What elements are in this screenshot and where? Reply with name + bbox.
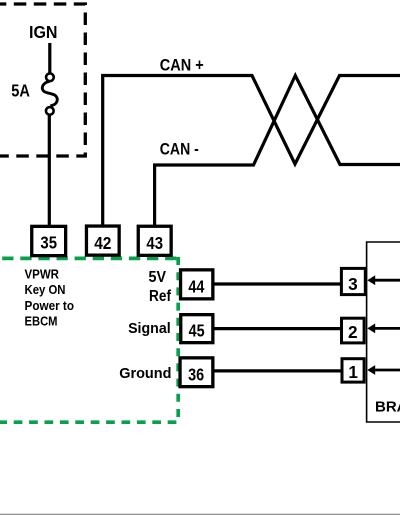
svg-text:2: 2 (348, 322, 358, 342)
EBCM connector green dashed boundary: right edge (176, 257, 180, 422)
brake pedal position sensor box (367, 242, 400, 422)
svg-text:44: 44 (188, 276, 204, 296)
fuse box dashed boundary (0, 4, 85, 156)
svg-text:BRA: BRA (375, 398, 400, 415)
svg-text:5V: 5V (149, 269, 167, 286)
arrow to pin 3 (375, 279, 400, 282)
pin 44 box (181, 270, 213, 299)
svg-text:CAN -: CAN - (160, 140, 199, 159)
svg-text:42: 42 (94, 233, 111, 253)
pin 45 box (181, 315, 213, 343)
pin 36 box (180, 358, 213, 387)
pin 2 box (342, 318, 365, 343)
svg-text:Power to: Power to (25, 298, 75, 313)
arrow to pin 2 (375, 327, 400, 330)
CAN + wire (vertical from pin 42, horizontal, twisted pair) (103, 76, 400, 227)
svg-text:CAN +: CAN + (160, 56, 204, 75)
wire pin 44 to pin 3 (214, 282, 341, 285)
svg-text:Key ON: Key ON (25, 282, 66, 297)
svg-text:EBCM: EBCM (25, 314, 58, 329)
svg-text:IGN: IGN (29, 22, 58, 42)
svg-text:1: 1 (348, 362, 358, 382)
svg-text:3: 3 (348, 274, 358, 294)
svg-text:45: 45 (189, 320, 205, 340)
wire fuse to pin 35 (48, 115, 51, 227)
pin 43 box (138, 226, 171, 255)
svg-text:Signal: Signal (128, 321, 171, 337)
CAN - wire (vertical from pin 43, horizontal, twisted pair) (155, 76, 400, 227)
wire IGN to fuse (48, 43, 51, 74)
pin 42 box (86, 226, 119, 255)
svg-text:Ground: Ground (119, 366, 171, 382)
fuse F1 bottom terminal (46, 107, 54, 115)
EBCM connector green dashed boundary: top edge (0, 257, 178, 261)
arrow to pin 1 (375, 369, 400, 372)
pin 35 box (32, 226, 66, 255)
svg-text:Ref: Ref (149, 288, 172, 305)
fuse F1 top terminal (46, 73, 54, 81)
svg-text:35: 35 (40, 233, 57, 253)
wire pin 36 to pin 1 (214, 369, 341, 372)
svg-text:VPWR: VPWR (25, 266, 60, 281)
wire pin 45 to pin 2 (214, 327, 341, 330)
pin 1 box (342, 359, 364, 382)
EBCM connector green dashed boundary: bottom edge (0, 420, 176, 424)
pin 3 box (341, 268, 365, 294)
svg-text:36: 36 (188, 364, 204, 384)
svg-text:5A: 5A (11, 81, 30, 101)
fuse F1 element (42, 81, 57, 106)
svg-text:43: 43 (146, 233, 163, 253)
page bottom hairline (0, 513, 400, 515)
